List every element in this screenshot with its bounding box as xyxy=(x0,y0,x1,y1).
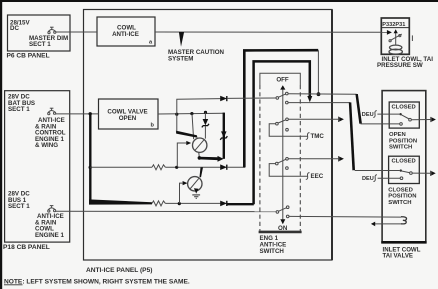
junction dot: Q2 base drop on R2 wire xyxy=(178,202,181,205)
open position switch internals xyxy=(361,111,436,126)
svg-text:b: b xyxy=(151,123,155,129)
pressure switch fixed contact xyxy=(399,35,401,37)
junction dot on W1 at Q1 emitter drop xyxy=(190,112,193,115)
wire: pole1 upper contact right xyxy=(288,93,357,96)
Q1 base wire to R1 tap xyxy=(177,143,186,167)
wire: stroke2 to closed position switch upper contact xyxy=(355,170,400,172)
Q2 base arrow xyxy=(183,181,188,185)
pole 2 upper contact xyxy=(286,118,289,121)
pole 2 lower contact xyxy=(286,128,289,131)
inlet cowl TAI valve box bottom border thick xyxy=(381,241,426,244)
wire: CB3 to switch pole 4 xyxy=(56,210,277,212)
thick wire B: over the top of switch xyxy=(254,61,310,204)
arrowhead into pressure switch xyxy=(387,30,392,35)
wire: COWL ANTI-ICE box to pressure switch xyxy=(155,31,387,33)
pole 2 moving contact xyxy=(276,122,279,125)
box: closed position switch xyxy=(389,156,420,183)
svg-text:NOTE: LEFT SYSTEM SHOWN, RIGHT: NOTE: LEFT SYSTEM SHOWN, RIGHT SYSTEM TH… xyxy=(4,279,190,286)
svg-text:CLOSED: CLOSED xyxy=(392,105,416,111)
svg-text:& WING: & WING xyxy=(35,142,58,149)
thick wire: D2 to wire B foot xyxy=(227,203,254,205)
panel P5 box: ANTI-ICE PANEL xyxy=(84,10,333,261)
thick wire: corner to R2 xyxy=(89,200,152,205)
wire: pole2 upper contact to TMC arrow xyxy=(288,118,338,120)
diode D2 xyxy=(220,201,227,207)
wire A: thin right-side drop to pole1 upper wire xyxy=(317,50,319,94)
svg-text:SECT 1: SECT 1 xyxy=(8,203,30,210)
switch enclosure dashed box xyxy=(260,73,300,85)
Q1 collector thick feed xyxy=(176,131,198,138)
svg-text:SWITCH: SWITCH xyxy=(388,200,411,206)
pole 3 lower contact xyxy=(286,167,289,170)
switch enclosure bottom thick bar xyxy=(259,231,302,234)
connector tick and arrow (open position switch) xyxy=(430,117,432,122)
connector tick and arrow (pole3 wire) xyxy=(338,156,340,161)
svg-text:DC: DC xyxy=(10,25,19,32)
pole 1 lower contact xyxy=(286,101,289,104)
connector tick and arrow (pole2 wire) xyxy=(338,117,340,122)
svg-text:POSITION: POSITION xyxy=(388,194,416,200)
ground below Q2 xyxy=(192,194,200,196)
Q1 emitter drop from W1 xyxy=(192,114,194,140)
wire: valve coil return with left arrow xyxy=(375,223,401,225)
wire: D1 to wire A xyxy=(227,166,245,168)
transistor Q1 xyxy=(176,114,224,168)
ENG 1 ANTI-ICE SWITCH assembly xyxy=(259,73,357,232)
OFF arrow (up) xyxy=(280,85,285,89)
pole 2 blade xyxy=(278,120,286,123)
pressure switch output tick xyxy=(411,35,413,41)
wire: pole1 lower contact right xyxy=(288,102,350,104)
svg-text:P18 CB PANEL: P18 CB PANEL xyxy=(3,244,50,251)
pressure switch bellows xyxy=(390,45,402,50)
Q1 base arrow xyxy=(186,141,191,145)
closed position switch pivot xyxy=(410,172,413,175)
svg-text:CLOSED: CLOSED xyxy=(392,159,416,165)
wire: open position switch output xyxy=(411,119,430,121)
wire: D3 to switch pole1 xyxy=(227,97,276,99)
Q2 base wire to R2 tap xyxy=(180,183,183,203)
wire: R2 to diode D2 xyxy=(165,202,220,204)
svg-text:CLOSED: CLOSED xyxy=(388,187,413,193)
pressure switch stem arrow up xyxy=(394,29,398,33)
pole 4 lower contact xyxy=(286,215,289,218)
svg-text:DEU: DEU xyxy=(362,112,374,118)
closed position switch upper contact xyxy=(400,169,402,171)
circuit breaker CB3: ANTI-ICE & RAIN COWL ENGINE 1 xyxy=(48,206,56,212)
svg-text:TAI VALVE: TAI VALVE xyxy=(383,253,413,260)
thick wire: W1 corner down to Q1 emitter node xyxy=(223,113,225,159)
junction dot: R1 wire tap on thick drop xyxy=(89,166,92,169)
pole 3 upper contact xyxy=(286,158,289,161)
junction dot on W1 at pole1 feed xyxy=(175,113,178,116)
diode D3 xyxy=(220,96,227,101)
circuit breaker CB1: MASTER DIM SECT 1 xyxy=(48,27,56,33)
switch mechanical link line xyxy=(282,89,284,219)
svg-text:ENGINE 1: ENGINE 1 xyxy=(35,232,64,239)
svg-text:ANTI-ICE PANEL (P5): ANTI-ICE PANEL (P5) xyxy=(86,267,152,274)
svg-text:SECT 1: SECT 1 xyxy=(29,41,51,48)
svg-text:OPEN: OPEN xyxy=(119,115,137,122)
svg-text:EEC: EEC xyxy=(311,173,324,180)
open position switch lower contact xyxy=(400,123,403,126)
wire: pole2 moving contact loop to TMC label xyxy=(269,124,307,137)
box: inlet cowl TAI valve xyxy=(382,91,426,243)
box: COWL VALVE OPEN indicator xyxy=(99,99,159,129)
closed position switch lower contact xyxy=(400,177,403,180)
svg-text:P6 CB PANEL: P6 CB PANEL xyxy=(7,52,50,59)
NOTE underline xyxy=(4,284,23,286)
closed position switch internals xyxy=(355,169,436,181)
pole 1 upper contact xyxy=(286,92,289,95)
valve coil (3-shaped winding) xyxy=(401,217,407,224)
open position switch pivot xyxy=(409,118,412,121)
wire: CB2 to COWL VALVE OPEN box xyxy=(56,113,99,115)
junction dot: Q1 base drop on R1 wire xyxy=(175,166,178,169)
pole 3 blade xyxy=(278,159,286,163)
wire: pole1 feed corner xyxy=(177,99,221,115)
pressure switch internals xyxy=(389,29,412,54)
wire: DEU to closed position switch lower contact xyxy=(378,177,401,179)
svg-text:OFF: OFF xyxy=(276,77,289,84)
open position switch blade xyxy=(401,115,409,119)
wire B arrowhead onto pole1 lower contact wire xyxy=(307,96,312,102)
pressure switch pivot contact xyxy=(389,40,391,42)
resistor R1 xyxy=(152,165,165,170)
pole 3 moving contact xyxy=(276,162,279,165)
wire: pole3 upper contact to EEC arrow xyxy=(288,158,338,160)
wire: pole3 moving contact loop to EEC label xyxy=(269,164,307,177)
svg-text:DEU: DEU xyxy=(362,176,374,182)
Q1 emitter lead to node xyxy=(198,152,201,158)
junction dot: wire A on pole1 upper wire xyxy=(317,92,321,96)
pole1 feed drop crossing W1 xyxy=(176,114,178,131)
WIRES AND COMPONENTS xyxy=(48,27,436,232)
wire: pole4 lower contact to valve coil xyxy=(289,215,401,218)
wire: R1 to diode D1 xyxy=(165,166,220,168)
circuit breaker CB2: ANTI-ICE & RAIN CONTROL ENGINE 1 & WING xyxy=(48,108,56,115)
svg-text:OPEN: OPEN xyxy=(389,132,406,138)
wire: closed position switch output xyxy=(412,172,430,174)
resistor R2 xyxy=(152,201,165,206)
open position switch upper contact xyxy=(399,113,401,115)
junction dot on W1 at thick drop xyxy=(89,112,92,115)
Q1 internal base bar xyxy=(195,140,204,151)
thick stroke: pole1 upper wire down to open position switch xyxy=(355,94,362,124)
wire W1: COWL VALVE OPEN box to corner xyxy=(158,112,224,115)
box: P18 CB panel xyxy=(5,91,70,242)
diode D1 xyxy=(220,164,227,170)
zener Z2 xyxy=(220,131,227,139)
DEU bracket 1 xyxy=(373,111,377,118)
scan border artifact left xyxy=(0,0,2,289)
Q2 collector thick feed from R1 wire xyxy=(200,167,204,177)
svg-text:SYSTEM: SYSTEM xyxy=(168,56,193,63)
junction dot on W1 at zener Z1 xyxy=(204,111,207,114)
pole 4 moving contact xyxy=(276,211,279,214)
thick wire A: over the top of switch xyxy=(244,50,318,167)
thick stroke: pole1 lower wire down to closed position switch xyxy=(349,102,355,170)
Q2 circle xyxy=(188,177,202,191)
Q1 circle xyxy=(193,138,207,152)
thick wire: CB2 bus drop down left side xyxy=(89,114,91,202)
Q2 emitter arrow down xyxy=(194,188,199,193)
Q1 thick emitter arrow to right xyxy=(200,156,224,162)
svg-text:SWITCH: SWITCH xyxy=(260,248,285,255)
wire: DEU to open position switch upper contact xyxy=(377,113,399,115)
wire: CB1 to COWL ANTI-ICE box xyxy=(56,31,97,33)
connector tick and arrow (closed position switch) xyxy=(430,171,432,176)
wire: R1 feed xyxy=(90,166,152,168)
TMC bracket xyxy=(306,133,310,140)
EEC bracket xyxy=(306,173,310,180)
box: open position switch xyxy=(389,102,419,128)
pole 1 blade xyxy=(279,94,287,97)
pressure switch stem xyxy=(395,33,397,46)
pole 4 upper contact xyxy=(286,206,289,209)
pressure switch blade xyxy=(390,34,402,40)
scan border artifact top xyxy=(0,0,438,2)
zener Z1 xyxy=(202,112,209,138)
svg-text:SWITCH: SWITCH xyxy=(389,145,412,151)
DEU bracket 2 xyxy=(373,175,377,182)
ON arrow (down) xyxy=(280,219,285,224)
svg-text:ON: ON xyxy=(278,225,288,232)
svg-text:TMC: TMC xyxy=(311,133,325,140)
svg-text:POSITION: POSITION xyxy=(389,138,417,144)
box: P6 CB panel xyxy=(8,15,71,51)
svg-text:ANTI-ICE: ANTI-ICE xyxy=(112,31,139,38)
pressure switch header separator xyxy=(381,27,409,29)
closed position switch blade xyxy=(402,171,410,173)
wire: stroke1 to open position switch lower contact xyxy=(361,123,400,125)
svg-text:P332P31: P332P31 xyxy=(382,22,405,28)
junction dot under Q1 xyxy=(198,156,202,160)
pole 1 moving contact xyxy=(276,97,279,100)
svg-text:PRESSURE SW: PRESSURE SW xyxy=(377,62,423,69)
pole 4 blade xyxy=(279,208,287,212)
panel P5 right border (thick) xyxy=(331,10,333,261)
Q2 internal base bar xyxy=(190,179,199,189)
svg-text:SECT 1: SECT 1 xyxy=(8,106,30,113)
box: COWL ANTI-ICE indicator xyxy=(97,17,155,46)
master caution arrow (thick, down) xyxy=(179,32,184,47)
transistor Q2 xyxy=(180,167,204,203)
box: inlet cowl TAI pressure switch xyxy=(381,18,409,54)
